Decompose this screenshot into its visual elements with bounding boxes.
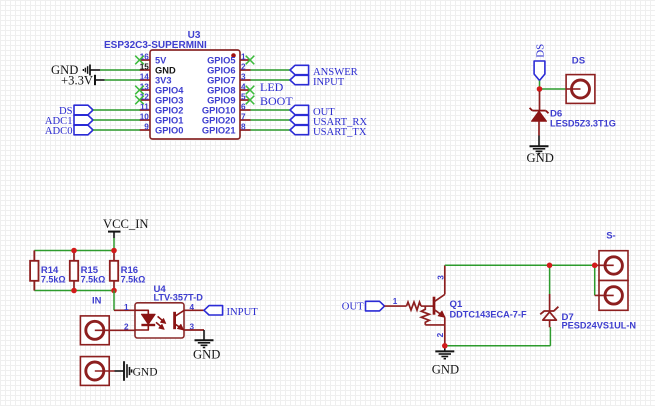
- svg-text:OUT: OUT: [342, 302, 364, 313]
- svg-text:DS: DS: [535, 44, 547, 58]
- svg-text:GND: GND: [432, 362, 459, 376]
- svg-text:PESD24VS1UL-N: PESD24VS1UL-N: [562, 320, 637, 330]
- svg-text:7.5kΩ: 7.5kΩ: [121, 274, 146, 284]
- svg-text:LESD5Z3.3T1G: LESD5Z3.3T1G: [550, 119, 616, 129]
- svg-text:GPIO0: GPIO0: [155, 125, 183, 135]
- svg-text:LTV-357T-D: LTV-357T-D: [154, 292, 204, 302]
- svg-text:2: 2: [241, 63, 246, 72]
- svg-text:Q1: Q1: [450, 299, 463, 310]
- svg-text:14: 14: [140, 73, 150, 82]
- svg-text:GPIO3: GPIO3: [155, 95, 183, 105]
- svg-text:GPIO20: GPIO20: [202, 115, 236, 125]
- svg-text:GND: GND: [133, 367, 158, 379]
- svg-text:GPIO7: GPIO7: [207, 75, 235, 85]
- svg-text:11: 11: [140, 103, 149, 112]
- svg-text:GPIO6: GPIO6: [207, 65, 235, 75]
- svg-text:INPUT: INPUT: [313, 77, 345, 88]
- svg-text:GPIO21: GPIO21: [202, 125, 236, 135]
- svg-text:1: 1: [241, 53, 246, 62]
- svg-text:9: 9: [144, 123, 149, 132]
- svg-text:DDTC143ECA-7-F: DDTC143ECA-7-F: [450, 310, 527, 320]
- svg-text:10: 10: [140, 113, 150, 122]
- svg-text:7.5kΩ: 7.5kΩ: [41, 274, 66, 284]
- svg-text:GND: GND: [193, 348, 220, 362]
- svg-text:6: 6: [241, 103, 246, 112]
- svg-text:DS: DS: [572, 55, 586, 66]
- svg-text:7.5kΩ: 7.5kΩ: [81, 274, 106, 284]
- svg-text:INPUT: INPUT: [227, 307, 259, 318]
- svg-text:GND: GND: [155, 65, 176, 75]
- svg-text:3: 3: [436, 275, 445, 280]
- svg-text:4: 4: [241, 83, 246, 92]
- svg-text:15: 15: [140, 63, 150, 72]
- svg-text:13: 13: [140, 83, 150, 92]
- svg-text:1: 1: [393, 297, 398, 306]
- svg-text:BOOT: BOOT: [260, 94, 293, 108]
- svg-text:ADC0: ADC0: [45, 126, 73, 137]
- svg-text:VCC_IN: VCC_IN: [103, 217, 148, 231]
- svg-text:GPIO2: GPIO2: [155, 105, 183, 115]
- svg-text:8: 8: [241, 123, 246, 132]
- svg-text:GND: GND: [527, 151, 554, 165]
- svg-text:LED: LED: [260, 80, 284, 94]
- svg-text:ESP32C3-SUPERMINI: ESP32C3-SUPERMINI: [104, 40, 207, 51]
- svg-text:12: 12: [140, 93, 150, 102]
- svg-text:GPIO9: GPIO9: [207, 95, 235, 105]
- svg-text:3: 3: [241, 73, 246, 82]
- svg-text:16: 16: [140, 53, 150, 62]
- svg-text:1: 1: [124, 303, 129, 312]
- svg-text:GPIO1: GPIO1: [155, 115, 183, 125]
- svg-text:7: 7: [241, 113, 246, 122]
- svg-text:GPIO4: GPIO4: [155, 85, 184, 95]
- svg-text:USART_TX: USART_TX: [313, 127, 367, 138]
- svg-text:IN: IN: [92, 294, 102, 305]
- svg-text:GPIO5: GPIO5: [207, 55, 235, 65]
- svg-text:GPIO8: GPIO8: [207, 85, 235, 95]
- svg-text:GPIO10: GPIO10: [202, 105, 236, 115]
- svg-text:5: 5: [241, 93, 246, 102]
- svg-text:5V: 5V: [155, 55, 167, 65]
- svg-text:2: 2: [436, 332, 445, 337]
- svg-text:S-: S-: [606, 231, 616, 242]
- svg-text:+3.3V: +3.3V: [61, 73, 93, 87]
- svg-text:3V3: 3V3: [155, 75, 172, 85]
